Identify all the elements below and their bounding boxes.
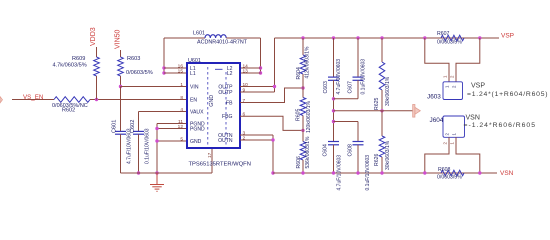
node R608 left <box>423 171 426 174</box>
wire OUTP pin 9 <box>240 91 275 93</box>
svg-text:L601: L601 <box>193 31 205 37</box>
node OUTN rail corner <box>271 171 274 174</box>
wire pin 15 <box>164 72 187 74</box>
svg-text:1: 1 <box>442 75 447 78</box>
svg-text:0.1uF/10V/0603: 0.1uF/10V/0603 <box>145 128 151 164</box>
wire PGND-GND join vertical <box>156 124 158 174</box>
svg-text:C604: C604 <box>323 144 329 157</box>
off-page connector GND arrow <box>413 105 421 118</box>
wire VIN to C601 <box>120 87 122 132</box>
svg-text:1: 1 <box>449 142 454 145</box>
svg-text:8: 8 <box>180 95 183 101</box>
resistor R605 <box>300 98 306 116</box>
wire VAUX to C602 <box>138 112 140 132</box>
wire J604 pin2 route <box>425 137 449 173</box>
wire VIN50 to R603 <box>120 50 122 57</box>
label J604 ref <box>430 117 444 124</box>
label C601 ref <box>112 120 118 133</box>
node C608 bottom <box>356 171 359 174</box>
label U601 part number <box>189 162 251 168</box>
svg-text:J603: J603 <box>427 94 441 101</box>
svg-text:2: 2 <box>449 75 454 78</box>
off-page connector fragment VS_EN <box>0 97 3 104</box>
label R605 ref <box>296 108 302 121</box>
wire OUTN vertical <box>272 135 274 173</box>
svg-text:0/0603/5%: 0/0603/5% <box>437 40 462 46</box>
net label VDD3 <box>90 27 97 46</box>
svg-text:VSP: VSP <box>471 83 485 90</box>
resistor R625 <box>379 62 385 90</box>
svg-text:0/0603/5%: 0/0603/5% <box>437 175 462 181</box>
label R608 ref <box>438 167 451 173</box>
wire C607 stub <box>334 98 359 100</box>
node PGND join <box>155 127 158 130</box>
label U601 internal GND <box>209 95 215 107</box>
capacitor C608 <box>353 142 364 145</box>
U601 right pin numbers <box>243 63 249 141</box>
label R626 ref <box>374 153 380 166</box>
node GND pin join <box>155 139 158 142</box>
wire L1 vertical <box>163 38 165 73</box>
svg-text:30k/0603/1%: 30k/0603/1% <box>385 76 391 106</box>
node L1 pin15 <box>162 71 165 74</box>
wire inductor right <box>226 37 260 39</box>
svg-text:VDD3: VDD3 <box>90 27 97 46</box>
note VSP formula line 2 <box>467 91 548 98</box>
label R625 value <box>385 76 391 106</box>
svg-text:0/0603/5%: 0/0603/5% <box>126 70 153 76</box>
node L2 pin13 <box>259 71 262 74</box>
label L601 value <box>197 40 248 46</box>
label C601 value <box>127 128 133 164</box>
wire VDD3 to R609 <box>96 47 98 57</box>
J604 pin 1 number outside <box>449 142 454 145</box>
svg-text:1: 1 <box>180 82 183 88</box>
wire GND pin 5 <box>157 140 187 142</box>
wire L2 vertical <box>260 38 262 73</box>
connector J604 <box>443 116 465 137</box>
U601 pin 17 number <box>207 152 213 158</box>
wire PGND pin 12 <box>157 128 187 130</box>
svg-text:C603: C603 <box>323 81 329 94</box>
wire J603 pin2 route <box>456 38 480 82</box>
node R608 right <box>478 171 481 174</box>
label R608 value <box>437 175 462 181</box>
label R602 ref <box>62 108 75 114</box>
node FBG junction <box>301 129 304 132</box>
wire pin 13 <box>240 72 261 74</box>
svg-text:412k/0603/1%: 412k/0603/1% <box>305 46 311 79</box>
label R603 value <box>126 70 153 76</box>
wire C608 to rail <box>357 145 359 173</box>
label C604 ref <box>323 144 329 157</box>
svg-text:PGND: PGND <box>190 126 205 132</box>
node L2 pin14 <box>259 66 262 69</box>
svg-text:=1.24*(1+R604/R605): =1.24*(1+R604/R605) <box>467 91 548 98</box>
label R609 ref <box>72 56 85 62</box>
J604 pin 1 number <box>451 133 456 136</box>
net label VIN50 <box>115 29 122 49</box>
node ground rail junction <box>155 171 158 174</box>
label C608 value <box>365 155 371 191</box>
capacitor C607 <box>353 77 364 80</box>
svg-text:R605: R605 <box>296 108 302 121</box>
label U601 ref <box>188 58 201 64</box>
svg-text:0.1uF/10V/0603: 0.1uF/10V/0603 <box>365 155 371 191</box>
capacitor C601 <box>115 131 126 134</box>
svg-text:OUTN: OUTN <box>218 138 233 144</box>
wire PGND pin 11 <box>157 123 187 125</box>
wire rail to R604 <box>302 38 304 55</box>
svg-text:4.7uF/10V/0603: 4.7uF/10V/0603 <box>337 155 343 191</box>
connector J603 <box>443 82 463 100</box>
inductor L601 <box>205 35 226 38</box>
label C603 value <box>336 59 342 95</box>
node C603 top <box>332 36 335 39</box>
svg-text:FBG: FBG <box>222 114 233 120</box>
wire FBG to R606 <box>302 130 304 141</box>
wire R605 to FBG <box>302 116 304 131</box>
svg-text:FB: FB <box>226 100 233 106</box>
node OUTP junction <box>273 85 276 88</box>
svg-text:R602: R602 <box>62 108 75 114</box>
capacitor C602 <box>133 131 144 134</box>
label C607 value <box>361 59 367 95</box>
svg-text:1: 1 <box>451 133 456 136</box>
wire rail to R625 <box>381 38 383 62</box>
svg-text:VSN: VSN <box>466 115 480 122</box>
svg-text:R606: R606 <box>296 156 302 169</box>
svg-text:2: 2 <box>451 85 456 88</box>
svg-text:2: 2 <box>442 142 447 145</box>
node R607 left <box>423 36 426 39</box>
svg-text:R607: R607 <box>437 31 450 37</box>
wire stub to C608 <box>357 122 359 142</box>
node R604 top <box>301 36 304 39</box>
wire analog GND line <box>334 110 414 112</box>
U601 internal partition dashed 1 <box>207 67 209 146</box>
svg-text:C607: C607 <box>348 81 354 94</box>
wire OUTN pin 3 <box>240 134 273 136</box>
label C604 value <box>337 155 343 191</box>
node R607 right <box>478 36 481 39</box>
svg-text:12: 12 <box>178 124 184 130</box>
node R625 bottom junction <box>380 109 383 112</box>
svg-text:0.1uF/10V/0603: 0.1uF/10V/0603 <box>361 59 367 95</box>
J603 pin 1 number outside <box>442 75 447 78</box>
svg-text:120k/0603/1%: 120k/0603/1% <box>306 100 312 133</box>
wire OUTN pin 2 <box>240 139 273 141</box>
svg-text:VSN: VSN <box>500 170 514 177</box>
svg-text:R603: R603 <box>127 56 140 62</box>
label C608 ref <box>348 144 354 157</box>
wire FBG pin 6 <box>240 116 303 130</box>
wire C604 to rail <box>333 145 335 173</box>
node VS_EN-R609 junction <box>95 98 98 101</box>
ground <box>150 173 164 191</box>
svg-text:R608: R608 <box>438 167 451 173</box>
node C608 stub junction <box>332 120 335 123</box>
svg-text:4.7k/0603/5%: 4.7k/0603/5% <box>53 63 87 69</box>
svg-text:4: 4 <box>180 107 183 113</box>
label R604 value <box>305 46 311 79</box>
resistor R626 <box>379 136 385 157</box>
svg-text:EN: EN <box>190 97 197 103</box>
wire VAUX pin 4 <box>139 111 188 113</box>
svg-text:C602: C602 <box>130 120 136 133</box>
svg-text:R625: R625 <box>374 97 380 110</box>
node C607 stub junction <box>332 97 335 100</box>
svg-text:C601: C601 <box>112 120 118 133</box>
wire J603 pin1 route <box>425 38 449 82</box>
wire OUTP pin 10 <box>240 86 275 88</box>
wire rail to C607 <box>357 38 359 77</box>
node C604 bottom <box>332 171 335 174</box>
U601 left pin numbers <box>178 63 184 142</box>
label R604 ref <box>296 67 302 80</box>
wire R625 to GND line <box>381 90 383 111</box>
capacitor C603 <box>328 77 339 80</box>
svg-text:L2: L2 <box>227 71 233 77</box>
svg-text:U601: U601 <box>188 58 201 64</box>
wire R603 to VIN node <box>120 76 122 87</box>
wire R606 to rail <box>302 160 304 173</box>
wire thermal pad pin 17 <box>211 148 213 173</box>
svg-text:5: 5 <box>180 136 183 142</box>
label R607 ref <box>437 31 450 37</box>
svg-text:30k/0603/1%: 30k/0603/1% <box>385 140 391 170</box>
label R626 value <box>385 140 391 170</box>
svg-text:TPS65135RTER/WQFN: TPS65135RTER/WQFN <box>189 162 251 168</box>
wire VSN bottom rail <box>273 172 497 174</box>
label R609 value <box>53 63 87 69</box>
U601 left pin names <box>190 66 205 145</box>
label L601 ref <box>193 31 205 37</box>
svg-text:17: 17 <box>207 152 213 158</box>
svg-text:536k/0603/1%: 536k/0603/1% <box>305 136 311 169</box>
svg-text:4.7uF/10V/0603: 4.7uF/10V/0603 <box>336 59 342 95</box>
label R606 ref <box>296 156 302 169</box>
U601 internal dash <box>215 68 223 70</box>
wire GND rail <box>121 172 213 174</box>
wire inductor left <box>164 37 205 39</box>
J603 pin 2 number <box>451 85 456 88</box>
label C602 ref <box>130 120 136 133</box>
label C602 value <box>145 128 151 164</box>
note VSN formula line 2 <box>464 122 537 129</box>
svg-text:2: 2 <box>444 133 449 136</box>
wire VIN pin 1 <box>121 86 188 88</box>
resistor R607 <box>441 35 464 41</box>
net label VSN <box>500 170 514 177</box>
node R626 bottom <box>380 171 383 174</box>
node VIN junction <box>119 85 122 88</box>
node R606 bottom <box>301 171 304 174</box>
label R625 ref <box>374 97 380 110</box>
svg-text:R604: R604 <box>296 67 302 80</box>
wire C608 stub <box>334 121 359 123</box>
IC U601 TPS65135 body <box>187 63 240 148</box>
label R606 value <box>305 136 311 169</box>
label C607 ref <box>348 81 354 94</box>
label R603 ref <box>127 56 140 62</box>
svg-text:1: 1 <box>444 85 449 88</box>
wire FB to R605 <box>302 88 304 98</box>
J604 pin 2 number outside <box>442 142 447 145</box>
wire C603 down center column <box>333 80 335 141</box>
svg-text:VIN: VIN <box>190 84 199 90</box>
wire J604 pin1 route <box>456 137 480 173</box>
note VSP formula line 1 <box>471 83 485 90</box>
svg-text:C608: C608 <box>348 144 354 157</box>
wire R604 to FB <box>302 74 304 88</box>
svg-text:OUTP: OUTP <box>218 90 233 96</box>
wire R609 to EN wire <box>96 76 98 100</box>
U601 right pin names <box>218 66 233 144</box>
wire EN <box>90 99 187 101</box>
wire pin 14 <box>240 67 261 69</box>
svg-text:ACDNR4010-4R7NT: ACDNR4010-4R7NT <box>197 40 248 46</box>
net label VS_EN <box>23 94 43 101</box>
wire C602 to GND rail <box>138 134 140 173</box>
wire C607 to stub <box>357 80 359 99</box>
svg-text:L1: L1 <box>190 71 196 77</box>
svg-text:13: 13 <box>243 68 249 74</box>
svg-text:VIN50: VIN50 <box>115 29 122 49</box>
node R625 top <box>380 36 383 39</box>
node L1 pin16 <box>162 66 165 69</box>
node FB junction <box>301 86 304 89</box>
J603 pin 1 number <box>444 85 449 88</box>
wire R626 to rail <box>381 157 383 173</box>
J603 pin 2 number outside <box>449 75 454 78</box>
wire VS_EN <box>12 99 54 101</box>
J604 pin 2 number <box>444 133 449 136</box>
wire VSP top rail <box>275 37 500 39</box>
node OUTN junction <box>271 138 274 141</box>
wire pin 16 <box>164 67 187 69</box>
svg-text:15: 15 <box>178 68 184 74</box>
note VSN formula line 1 <box>466 115 480 122</box>
capacitor C604 <box>328 142 339 145</box>
svg-text:R609: R609 <box>72 56 85 62</box>
resistor R606 <box>300 142 306 161</box>
wire GND line to R626 <box>381 111 383 136</box>
label R607 value <box>437 40 462 46</box>
svg-text:R626: R626 <box>374 153 380 166</box>
resistor R602 <box>54 97 90 103</box>
label C603 ref <box>323 81 329 94</box>
wire C601 to GND rail <box>120 134 122 173</box>
wire rail to C603 <box>333 38 335 77</box>
label R602 value <box>52 103 88 109</box>
label J603 ref <box>427 94 441 101</box>
svg-text:J604: J604 <box>430 117 444 124</box>
node C602-GND rail junction <box>137 171 140 174</box>
svg-text:GND: GND <box>190 139 202 145</box>
node C607 top <box>356 36 359 39</box>
node GND line junction <box>332 109 335 112</box>
resistor R608 <box>441 170 464 176</box>
svg-text:VAUX: VAUX <box>190 109 204 115</box>
wire FB pin 7 <box>240 88 303 103</box>
label R605 value <box>306 100 312 133</box>
U601 internal partition dashed 2 <box>225 72 227 146</box>
svg-text:=-1.24*R606/R605: =-1.24*R606/R605 <box>464 122 537 129</box>
svg-text:VSP: VSP <box>501 33 514 40</box>
resistor R609 <box>94 57 100 76</box>
resistor R603 <box>118 57 124 76</box>
resistor R604 <box>300 55 306 74</box>
net label VSP <box>501 33 514 40</box>
svg-text:GND: GND <box>209 95 215 107</box>
wire OUTP vertical <box>274 38 276 92</box>
